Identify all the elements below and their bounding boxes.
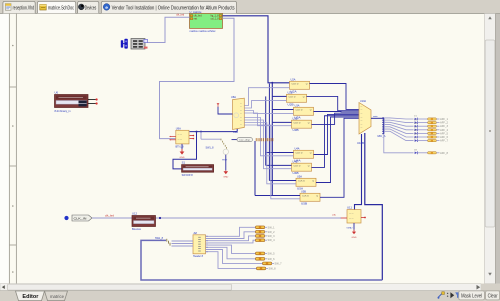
svg-text:SW1_8: SW1_8 — [155, 236, 164, 240]
svg-text:Bounce: Bounce — [132, 227, 142, 231]
svg-text:BTN_B: BTN_B — [176, 145, 184, 149]
svg-text:Q: Q — [308, 166, 310, 168]
svg-text:U2A: U2A — [291, 79, 296, 82]
svg-text:SW_8: SW_8 — [269, 267, 277, 270]
svg-text:Q: Q — [306, 84, 308, 86]
svg-text:Clear: Clear — [488, 294, 498, 300]
svg-text:—: — — [361, 109, 363, 111]
svg-text:—: — — [240, 110, 242, 112]
svg-text:U4B: U4B — [293, 160, 298, 163]
svg-text:—: — — [240, 120, 242, 122]
svg-text:U5A: U5A — [297, 176, 302, 179]
svg-text:AFF_7: AFF_7 — [440, 140, 449, 143]
svg-text:—: — — [240, 117, 242, 119]
svg-text:U11: U11 — [347, 207, 353, 210]
svg-text:SW_5: SW_5 — [268, 252, 276, 255]
svg-text:U5B: U5B — [301, 191, 306, 194]
svg-text:8-bit binary_in: 8-bit binary_in — [55, 109, 72, 113]
svg-text:GND: GND — [347, 228, 354, 230]
svg-text:SW_6: SW_6 — [268, 258, 276, 261]
svg-text:clk_brd: clk_brd — [105, 213, 115, 217]
svg-text:CLK D: CLK D — [302, 196, 309, 198]
svg-text:U2B: U2B — [288, 92, 293, 95]
svg-text:Devices: Devices — [85, 6, 97, 12]
svg-text:sw_dip: sw_dip — [239, 140, 251, 142]
svg-text:matrice.SchDoc: matrice.SchDoc — [48, 6, 74, 12]
svg-text:—: — — [240, 113, 242, 115]
svg-text:U8A: U8A — [231, 96, 236, 99]
svg-text:Mask Level: Mask Level — [461, 294, 482, 300]
svg-text:AFF_3: AFF_3 — [440, 125, 449, 128]
svg-text:—: — — [361, 124, 363, 126]
svg-text:col_1_8: col_1_8 — [211, 18, 220, 21]
svg-text:D2: D2 — [414, 119, 417, 121]
svg-text:Q: Q — [310, 153, 312, 155]
svg-text:RST: RST — [222, 159, 228, 161]
svg-text:AFF_6: AFF_6 — [440, 136, 449, 139]
svg-text:SW1_8: SW1_8 — [206, 145, 215, 149]
svg-text:—: — — [361, 120, 363, 122]
svg-text:rst: rst — [194, 18, 198, 21]
svg-text:MIC_A: MIC_A — [378, 134, 386, 138]
svg-text:U10A: U10A — [360, 100, 366, 103]
svg-text:U3B: U3B — [293, 128, 299, 132]
svg-text:D5: D5 — [414, 130, 417, 132]
svg-text:Vendor Tool Installation | Onl: Vendor Tool Installation | Online Docume… — [112, 6, 235, 12]
svg-text:SW_2: SW_2 — [268, 231, 276, 234]
svg-text:GND: GND — [352, 237, 358, 239]
svg-text:U9A: U9A — [176, 127, 181, 130]
svg-text:U10B: U10B — [357, 142, 364, 145]
svg-text:CLK D: CLK D — [298, 181, 305, 183]
svg-text:—: — — [361, 116, 363, 118]
svg-text:D6: D6 — [414, 134, 417, 136]
svg-text:—: — — [240, 103, 242, 105]
svg-text:Header 8: Header 8 — [193, 255, 204, 258]
svg-text:SW_7: SW_7 — [275, 262, 283, 265]
svg-text:AFF_1: AFF_1 — [440, 118, 449, 121]
svg-text:—: — — [361, 113, 363, 115]
svg-text:Q: Q — [303, 97, 305, 99]
svg-text:CLK D: CLK D — [292, 84, 299, 86]
svg-text:CLK D: CLK D — [294, 123, 301, 125]
svg-text:Q: Q — [310, 110, 312, 112]
svg-text:D7: D7 — [414, 137, 417, 139]
svg-text:CLK D: CLK D — [289, 97, 296, 99]
svg-text:Q: Q — [308, 123, 310, 125]
svg-text:U3B: U3B — [293, 117, 298, 120]
svg-text:Q: Q — [312, 181, 314, 183]
svg-text:U2B: U2B — [288, 102, 294, 106]
svg-text:Q: Q — [316, 196, 318, 198]
svg-text:CLK D: CLK D — [294, 166, 301, 168]
svg-text:D4: D4 — [414, 127, 417, 129]
svg-text:CLK D: CLK D — [296, 153, 303, 155]
svg-text:Editor: Editor — [22, 294, 38, 300]
svg-text:GND: GND — [223, 176, 229, 178]
svg-text:clk_brd: clk_brd — [176, 13, 185, 17]
svg-text:CLK_IN: CLK_IN — [74, 217, 87, 221]
svg-text:D8: D8 — [414, 150, 417, 152]
svg-text:SW_3: SW_3 — [268, 235, 276, 238]
svg-text:—: — — [361, 127, 363, 129]
svg-text:U3A: U3A — [295, 105, 300, 108]
svg-text:matrice matrice.schdoc: matrice matrice.schdoc — [190, 29, 217, 33]
svg-text:— —: — — — [178, 134, 183, 136]
svg-text:U12: U12 — [132, 213, 138, 216]
svg-text:D3: D3 — [414, 123, 417, 125]
svg-text:U5B: U5B — [301, 201, 307, 205]
svg-text:matrice: matrice — [50, 294, 64, 300]
svg-text:—: — — [240, 106, 242, 108]
svg-text:e: e — [105, 6, 108, 11]
svg-text:reception.Vhd: reception.Vhd — [13, 6, 35, 12]
svg-text:AFF_5: AFF_5 — [440, 132, 449, 135]
svg-text:D1: D1 — [414, 116, 417, 118]
svg-text:AFF_8: AFF_8 — [440, 152, 449, 155]
svg-text:—: — — [361, 106, 363, 108]
svg-text:— —: — — — [349, 218, 354, 220]
svg-text:SW_4: SW_4 — [268, 239, 276, 242]
svg-text:SW DIP-8: SW DIP-8 — [182, 173, 194, 177]
svg-text:GND: GND — [180, 157, 186, 159]
svg-text:—: — — [240, 124, 242, 126]
svg-text:— —: — — — [178, 139, 183, 141]
svg-text:— —: — — — [349, 213, 354, 215]
svg-text:AFF_2: AFF_2 — [440, 122, 449, 125]
svg-text:U4A: U4A — [295, 148, 300, 151]
svg-text:SW_1: SW_1 — [268, 226, 276, 229]
svg-text:CLK D: CLK D — [296, 110, 303, 112]
svg-text:AFF_4: AFF_4 — [440, 129, 449, 132]
